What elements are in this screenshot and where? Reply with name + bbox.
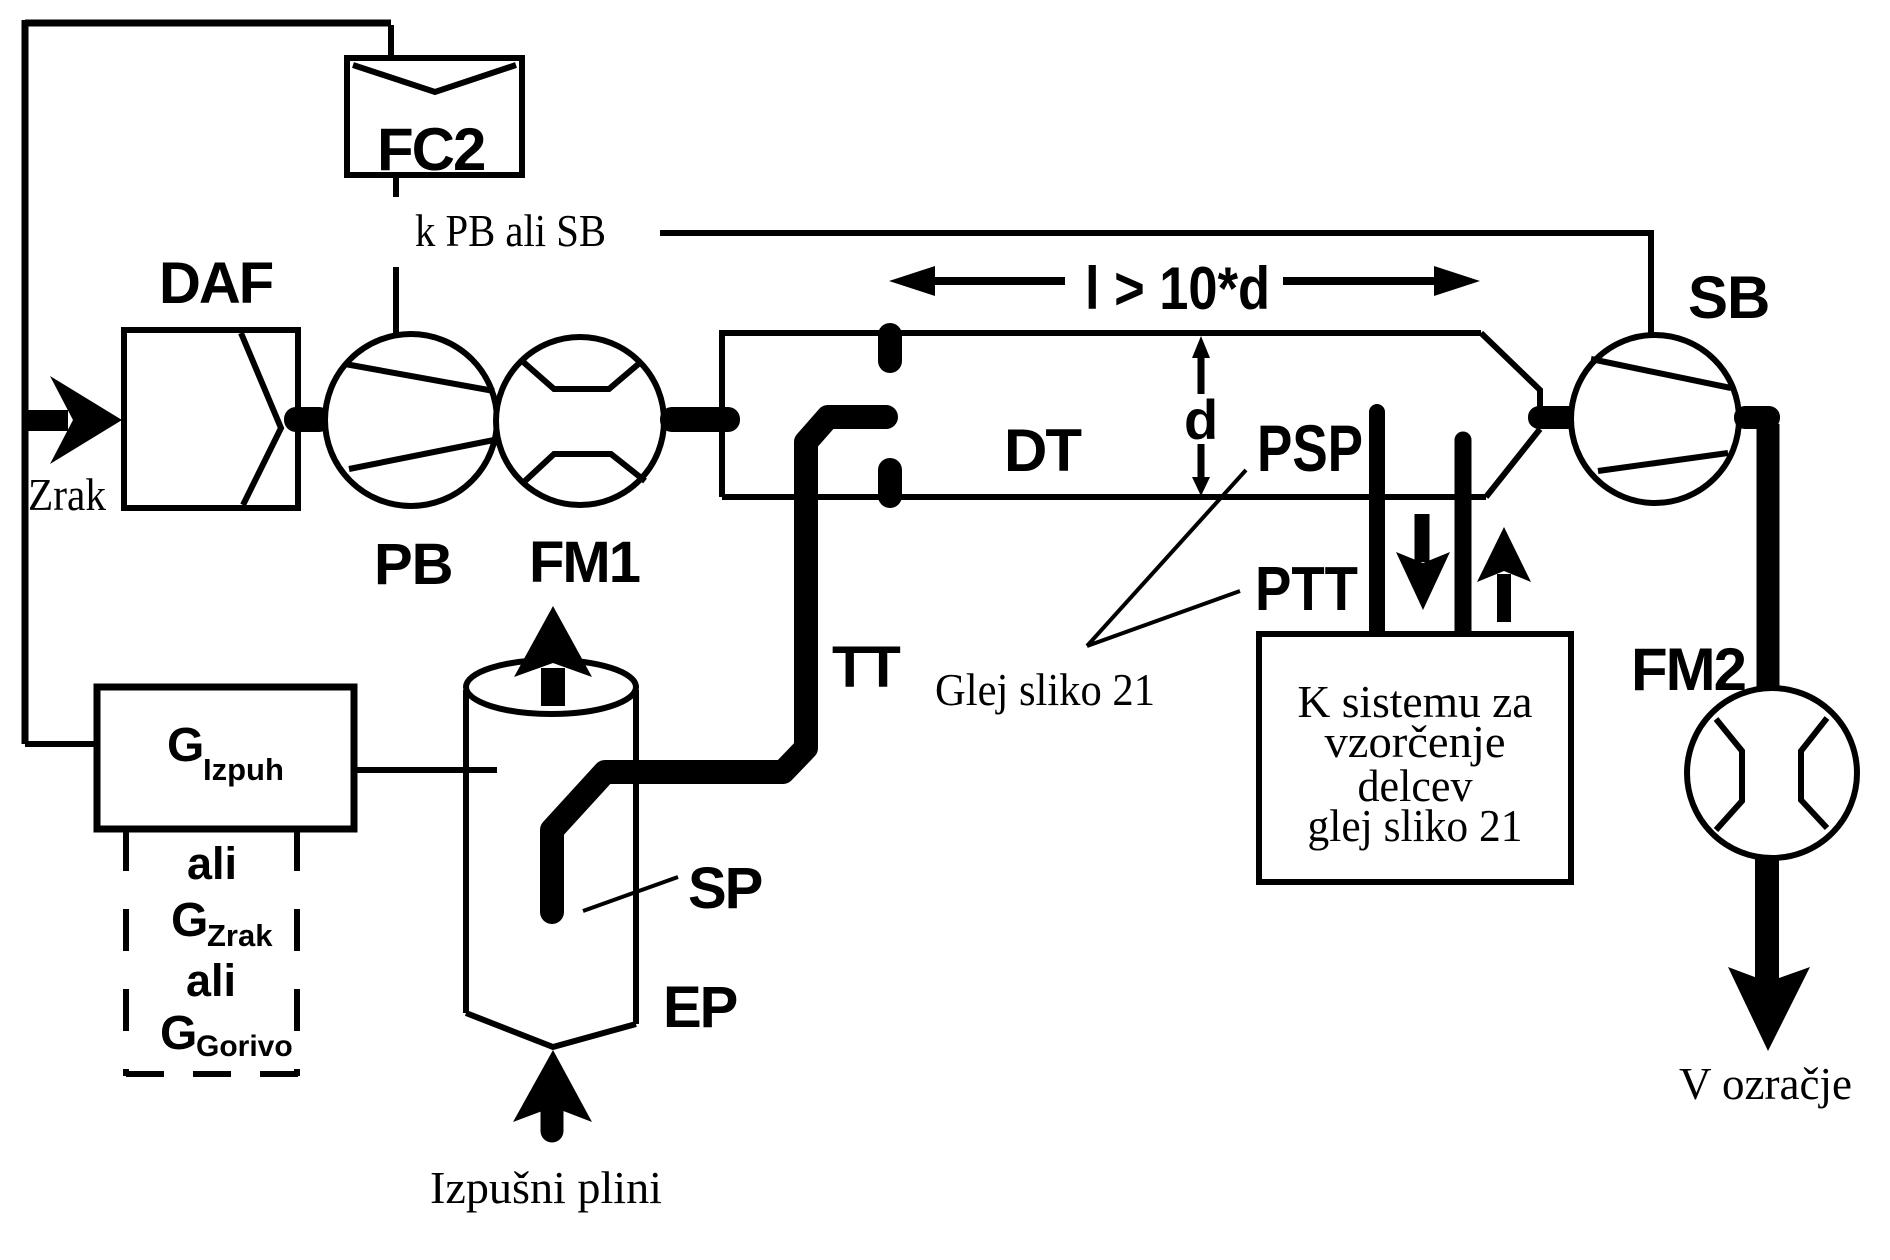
svg-text:PB: PB	[374, 532, 453, 597]
svg-text:PSP: PSP	[1257, 411, 1363, 485]
dashed box right side	[294, 829, 300, 1076]
DT outlet taper	[1481, 333, 1540, 497]
svg-text:EP: EP	[663, 975, 737, 1040]
wire to SB	[660, 233, 1651, 336]
svg-text:G: G	[171, 894, 208, 947]
EP exhaust up arrow	[541, 668, 565, 706]
connector SB outlet	[1734, 406, 1780, 429]
PB blower vanes	[345, 364, 494, 469]
FM2 outlet arrow	[1755, 858, 1779, 985]
wire top-left horizontal	[25, 20, 391, 27]
svg-text:G: G	[160, 1007, 197, 1060]
connector DT to SB	[1528, 406, 1580, 429]
svg-text:l > 10*d: l > 10*d	[1085, 255, 1270, 322]
flow up arrow	[1497, 574, 1511, 622]
blower SB circle	[1571, 335, 1739, 503]
dashed box bottom side	[126, 1071, 300, 1077]
dimension arrow l right	[1283, 277, 1452, 285]
svg-text:TT: TT	[832, 635, 900, 700]
dashed box left side	[123, 829, 129, 1076]
svg-text:G: G	[167, 719, 204, 772]
pipe SB to FM2	[1757, 424, 1780, 698]
wire down to PB	[393, 267, 399, 333]
svg-text:Gorivo: Gorivo	[196, 1030, 293, 1063]
wire FC2 bottom stub	[393, 175, 399, 197]
svg-text:d: d	[1184, 388, 1218, 451]
wire drop to FC2	[388, 25, 394, 60]
SB blower vanes	[1591, 359, 1731, 471]
EP inlet up arrow	[541, 1100, 564, 1131]
DT joint blob bottom	[878, 458, 902, 508]
svg-text:Izpušni plini: Izpušni plini	[430, 1162, 662, 1213]
measurement box G_Izpuh	[97, 687, 354, 829]
svg-text:k PB ali SB: k PB ali SB	[415, 205, 606, 256]
filter DAF box	[124, 330, 298, 508]
svg-text:SB: SB	[1688, 264, 1769, 331]
EP cylinder bottom cut	[466, 1013, 636, 1047]
SP pointer line	[583, 877, 678, 911]
flow meter FM1 circle	[496, 337, 664, 505]
svg-text:SP: SP	[688, 856, 762, 921]
svg-text:ali: ali	[187, 838, 237, 889]
svg-text:Izpuh: Izpuh	[203, 752, 284, 787]
blower PB circle	[325, 334, 497, 506]
FM1 venturi bottom	[525, 454, 645, 481]
FM1 venturi top	[521, 360, 642, 389]
svg-text:Zrak: Zrak	[28, 469, 106, 520]
dimension d arrow upper	[1198, 355, 1205, 394]
dimension arrow l left	[905, 277, 1065, 285]
Zrak inlet arrow shaft	[28, 410, 68, 431]
svg-text:V ozračje: V ozračje	[1679, 1058, 1852, 1109]
svg-text:glej sliko 21: glej sliko 21	[1308, 800, 1523, 851]
svg-text:DT: DT	[1004, 417, 1081, 484]
DT joint blob top	[878, 323, 902, 373]
dilution tunnel DT walls	[722, 333, 1486, 497]
svg-text:FM2: FM2	[1631, 636, 1745, 703]
flow down arrow	[1415, 514, 1430, 562]
particulate sampling probe PSP	[1369, 412, 1385, 643]
DAF filter element	[241, 333, 281, 505]
wire into G_Izpuh box	[25, 741, 97, 747]
svg-text:ali: ali	[186, 955, 236, 1006]
Zrak inlet arrowhead	[50, 376, 122, 464]
particulate transfer tube PTT probe	[1455, 440, 1472, 642]
dimension d arrow lower	[1198, 444, 1205, 484]
svg-text:FM1: FM1	[529, 530, 640, 595]
svg-text:FC2: FC2	[377, 116, 484, 183]
FM2 venturi right	[1801, 718, 1827, 828]
FC2 valve flap	[353, 65, 516, 92]
EP cylinder walls	[466, 690, 636, 1024]
connector FM1 to DT	[660, 407, 740, 432]
FM2 venturi left	[1716, 719, 1742, 830]
transfer tube TT pipe	[552, 417, 886, 912]
svg-text:Glej sliko 21: Glej sliko 21	[935, 664, 1155, 715]
wire G_Izpuh to EP	[354, 767, 497, 773]
connector DAF to PB	[284, 407, 331, 432]
exhaust pipe EP cylinder top ellipse	[466, 660, 636, 714]
svg-text:PTT: PTT	[1255, 555, 1358, 624]
particulate sampling system box	[1259, 634, 1571, 882]
flow meter FM2 circle	[1687, 688, 1857, 858]
pointer line to PSP	[1087, 470, 1246, 646]
svg-text:Zrak: Zrak	[207, 918, 273, 953]
svg-text:DAF: DAF	[159, 251, 273, 316]
pointer line to PTT	[1087, 591, 1240, 646]
flow controller FC2 box	[347, 58, 522, 175]
wire left vertical	[22, 20, 29, 744]
